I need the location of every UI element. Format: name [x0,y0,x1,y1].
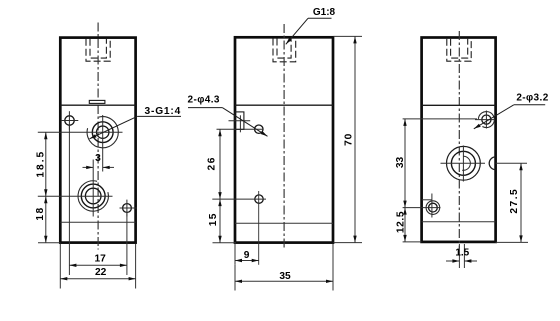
bottom-left hole inner circle [429,203,438,212]
upper port middle circle [92,122,113,143]
phi3.2 hole top-right outer arc [478,112,494,128]
phi3.2 hole vertical crosshair [485,111,487,129]
middle view cap joint line [235,104,333,106]
dim 27.5 top extension [496,162,527,164]
phi4.3 hole1 horizontal crosshair [229,120,251,122]
left view tab on joint line [89,100,105,103]
svg-text:12.5: 12.5 [395,211,406,233]
lower port vertical centerline + 3 dim extension [92,160,94,217]
extension from upper-left hole down to 17 dim [68,126,70,275]
left view cap joint line [60,104,135,106]
bottom-left hole vertical crosshair [431,194,433,218]
svg-text:22: 22 [95,267,107,278]
svg-text:27.5: 27.5 [509,188,520,214]
lower port middle circle [81,184,105,208]
upper port inner circle [97,126,109,138]
dim 1.5 dimension line right segment [464,260,477,262]
dim 35 left extension [234,265,236,291]
dim 26/15 dimension line [219,129,221,243]
dim 35 dimension line [235,280,333,282]
dim 3 dimension line right segment [103,166,114,168]
dim 26/15 extension middle through lower hole [212,198,266,200]
right view top notch dashed U outer [447,39,471,62]
leader G1:8 diagonal [286,18,308,44]
dim 35 right extension [332,244,334,291]
upper port vertical centerline + 3 dim extension [102,115,104,172]
extension at bottom edge for 18 [38,242,60,244]
dim 15 extension bottom [213,242,237,244]
bottom-left hole horizontal crosshair + extension to dim line [403,207,441,209]
dim 9 dimension line [235,260,259,262]
svg-text:26: 26 [207,156,218,170]
right view body outline [422,38,496,242]
middle view body outline [235,37,333,242]
leader 2-phi3.2 shelf [514,104,545,106]
crosshair of upper-left hole [61,120,79,122]
phi3.2 hole horizontal crosshair [475,119,495,121]
svg-text:3: 3 [95,153,101,164]
left view vertical centerline [97,23,99,250]
extension from lower-right hole down to 17 dim [126,213,128,275]
leader 3-G1:4 shelf [137,115,181,117]
crosshair of lower-right hole [120,207,137,209]
svg-text:17: 17 [95,254,107,265]
leader 2-phi3.2 diagonal [474,105,514,129]
svg-text:18.5: 18.5 [36,150,47,178]
dim 26 extension top through upper hole [217,128,264,130]
lower port inner circle [85,188,101,204]
dim 22 dimension line [60,278,135,280]
phi4.3 hole1 vertical crosshair [239,115,241,132]
dim 33/12.5 dimension line [404,119,406,242]
right view cap joint line [422,104,496,106]
mounting hole lower-right [123,204,132,213]
dim 17 dimension line [69,264,127,266]
left view body outline [60,38,135,243]
center port middle circle [451,151,475,175]
leader 2-phi4.3 diagonal [222,108,267,137]
left view top notch hidden dashed U outer [86,39,110,61]
dim 1.5 left extension line [458,244,460,268]
right view bottom step line [422,221,496,223]
middle view bottom step line [235,222,333,224]
dim 1.5 dimension line left segment [446,260,459,262]
dim 22 left extension [59,244,61,289]
center port outer circle [447,146,481,180]
bottom-left hole outer circle [426,201,440,215]
right view vertical centerline [458,31,460,248]
center port vertical crosshair [462,146,464,182]
lower G1:4 port outer thread arc [78,181,108,211]
svg-text:70: 70 [344,133,355,146]
svg-text:1.5: 1.5 [455,248,469,259]
svg-text:2-φ4.3: 2-φ4.3 [188,95,220,106]
dim 27.5 bottom extension [496,241,528,243]
svg-text:2-φ3.2: 2-φ3.2 [516,93,548,104]
phi4.3 hole1 slot rectangle on left edge [235,112,244,129]
side port half circle on right edge [489,157,495,170]
left view bottom step line [60,221,135,223]
dim 3 dimension line left segment [83,166,94,168]
dim 70 dimension line [354,36,356,242]
leader G1:8 shelf [308,17,332,19]
dim 9 left extension below body [234,244,236,265]
leader 3-G1:4 diagonal [90,116,138,138]
dim 70 bottom extension [334,242,363,244]
phi4.3 hole3 circle lower [255,195,263,203]
dim 33 extension line to phi3.2 hole [403,118,477,120]
leader 2-phi4.3 shelf [188,107,222,109]
dim 12.5 bottom extension [403,241,422,243]
svg-text:18: 18 [35,206,46,220]
upper G1:4 port outer thread arc [87,117,118,148]
svg-text:3-G1:4: 3-G1:4 [145,106,182,117]
phi3.2 hole inner circle [482,115,491,124]
small step line above bottom-left hole [422,199,432,201]
phi4.3 hole2 circle upper [255,125,263,133]
dim 27.5 dimension line [520,163,522,242]
mounting hole upper-left [65,116,74,125]
center port inner arc [462,156,470,170]
lower hole vertical crosshair + 9 dim extension [258,191,260,265]
middle view vertical centerline [283,24,285,250]
dim 18.5/18 dimension line [45,132,47,243]
middle view top notch dashed U inner [277,39,291,59]
svg-text:9: 9 [244,250,250,261]
upper port horizontal centerline + 18.5 extension [38,131,123,133]
center port horizontal crosshair [441,162,486,164]
svg-text:33: 33 [395,157,406,169]
svg-text:15: 15 [208,212,219,226]
middle view top notch dashed U outer [273,39,296,62]
lower port horizontal centerline + 18 extension [38,195,113,197]
dim 22 right extension [135,244,137,289]
svg-text:35: 35 [279,271,291,282]
left view top notch hidden dashed U inner [90,39,106,58]
svg-text:G1:8: G1:8 [313,7,336,18]
dim 1.5 right extension line [463,244,465,268]
right view top notch dashed U inner [451,39,468,58]
dim 70 top extension [334,35,363,37]
